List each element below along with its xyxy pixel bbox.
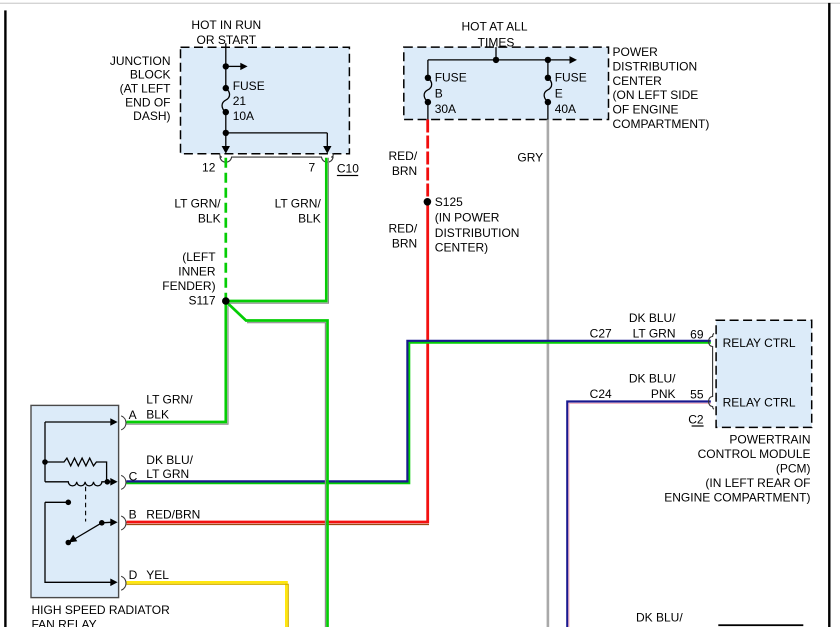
label C27 (590, 327, 612, 341)
arrow relay pin B (102, 519, 118, 527)
svg-text:FUSE: FUSE (555, 70, 587, 84)
connector cup relay pin A (121, 416, 126, 430)
label DK BLU/LT GRN (629, 311, 676, 340)
connector cup relay pin B (121, 516, 126, 530)
wire RED/BRN dashed from fuse B (426, 120, 429, 199)
svg-text:CONTROL MODULE: CONTROL MODULE (698, 447, 811, 461)
svg-text:D: D (129, 568, 138, 582)
wire fuse B lower lead (427, 102, 429, 119)
label FUSE 21 10A (233, 79, 265, 123)
node switch arm pivot dot (99, 520, 105, 526)
label RED/BRN upper (389, 149, 418, 178)
svg-text:(AT LEFT: (AT LEFT (120, 82, 172, 96)
wire fuse output horizontal (226, 132, 327, 134)
wire fuse B drop (427, 60, 429, 78)
arrow to terminal 7 (323, 133, 331, 154)
label POWER DISTRIBUTION CENTER (613, 45, 710, 131)
svg-text:DK BLU/: DK BLU/ (629, 311, 676, 325)
svg-text:DK BLU/: DK BLU/ (146, 453, 193, 467)
svg-text:OR START: OR START (197, 33, 257, 47)
svg-text:INNER: INNER (178, 265, 216, 279)
svg-text:E: E (555, 86, 563, 100)
svg-text:POWERTRAIN: POWERTRAIN (729, 432, 810, 446)
wire relay coil left rail (44, 422, 46, 482)
label FUSE E 40A (555, 70, 587, 115)
node coil output dot (105, 479, 111, 485)
svg-text:30A: 30A (435, 102, 456, 116)
svg-text:HOT AT ALL: HOT AT ALL (461, 20, 527, 34)
wire gray tracer diagonal branch (247, 323, 325, 627)
wire junction block feed vertical (225, 47, 227, 133)
svg-text:FAN RELAY: FAN RELAY (32, 618, 97, 627)
wire relay lower rail to pin D (45, 502, 111, 582)
label connector C10 (337, 161, 359, 176)
svg-text:FUSE: FUSE (233, 79, 265, 93)
svg-text:BLK: BLK (146, 408, 169, 422)
wire relay pin A internal (45, 421, 111, 423)
svg-text:C: C (129, 470, 138, 484)
svg-text:LT GRN/: LT GRN/ (146, 393, 193, 407)
wire PDC feed vertical (495, 47, 497, 60)
svg-text:C10: C10 (337, 161, 359, 175)
wire PDC bus horizontal (428, 59, 570, 61)
junction block box (181, 47, 350, 154)
wire YEL from relay pin D (127, 582, 287, 627)
fuse E bottom dot (545, 99, 551, 105)
svg-text:BLOCK: BLOCK (130, 68, 171, 82)
label HOT IN RUN OR START (191, 18, 261, 47)
svg-text:OF ENGINE: OF ENGINE (613, 103, 679, 117)
svg-text:B: B (435, 86, 443, 100)
label (LEFT INNER FENDER) S117 (162, 250, 216, 308)
label pin B and RED/BRN (129, 507, 201, 521)
label RELAY CTRL pin 69 (723, 336, 796, 350)
svg-text:RELAY CTRL: RELAY CTRL (723, 395, 796, 409)
label DK BLU/PNK (629, 372, 676, 401)
wire RED/BRN solid vertical to relay level (127, 202, 428, 522)
label FUSE B 30A (435, 70, 467, 115)
svg-text:LT GRN/: LT GRN/ (275, 196, 322, 210)
arrow PDC bus continuation (570, 56, 578, 64)
wire GRY vertical (547, 120, 550, 627)
component box edge bottom right (718, 624, 803, 626)
node switch fixed contact dot (66, 500, 72, 506)
svg-text:LT GRN: LT GRN (633, 327, 676, 341)
node fuse output dot (223, 130, 229, 136)
svg-text:FUSE: FUSE (435, 70, 467, 84)
fuse B element (424, 78, 432, 102)
svg-text:BLK: BLK (298, 212, 321, 226)
label DK BLU/ bottom (636, 611, 683, 625)
fuse F21 bottom dot (223, 109, 229, 115)
svg-text:(IN POWER: (IN POWER (435, 210, 500, 224)
node resistor left dot (42, 459, 48, 465)
label RELAY CTRL pin 55 (723, 395, 796, 409)
border frame top rule (0, 3, 840, 4)
wire pink tracer of DK BLU/PNK (569, 403, 711, 627)
svg-text:21: 21 (233, 94, 247, 108)
svg-text:69: 69 (690, 328, 704, 342)
svg-text:C27: C27 (590, 327, 612, 341)
wire fuse E drop (547, 60, 549, 78)
svg-text:S117: S117 (188, 293, 215, 307)
fuse B top dot (425, 75, 431, 81)
wire stub above junction block (225, 43, 227, 47)
svg-text:POWER: POWER (613, 45, 659, 59)
wire dark tracer of YEL (127, 584, 289, 627)
svg-text:55: 55 (690, 388, 704, 402)
arrow bus continuation right (226, 63, 248, 70)
wire lt green tracer of DK BLU/LT GRN (127, 343, 711, 484)
connector C10 line with terminal cups (220, 153, 334, 162)
fuse E top dot (545, 75, 551, 81)
svg-text:BRN: BRN (392, 236, 417, 250)
svg-text:COMPARTMENT): COMPARTMENT) (613, 117, 710, 131)
label GRY (517, 150, 543, 164)
fuse E element (544, 78, 552, 102)
label terminal 7 (309, 160, 316, 174)
svg-text:RED/: RED/ (389, 149, 418, 163)
svg-text:(ON LEFT SIDE: (ON LEFT SIDE (613, 88, 699, 102)
svg-text:PNK: PNK (651, 387, 676, 401)
switch SW1 movable arm (68, 523, 101, 543)
wire brown tracer under RED/BRN horizontal (127, 524, 430, 526)
svg-text:LT GRN: LT GRN (146, 467, 189, 481)
svg-text:HIGH SPEED RADIATOR: HIGH SPEED RADIATOR (32, 603, 171, 617)
PCM box (716, 320, 812, 427)
svg-text:CENTER): CENTER) (435, 240, 488, 254)
svg-text:YEL: YEL (146, 568, 169, 582)
wire DK BLU/LT GRN navy run relay pin C to PCM pin 69 (127, 341, 711, 482)
node PDC feed dot (493, 57, 499, 63)
mechanical link dashed (85, 487, 87, 522)
wire LT GRN/BLK S117 down to relay pin A (127, 303, 226, 422)
svg-text:C2: C2 (688, 413, 704, 427)
svg-text:DISTRIBUTION: DISTRIBUTION (435, 226, 520, 240)
svg-text:LT GRN/: LT GRN/ (174, 196, 221, 210)
node fuse E tap dot (545, 57, 551, 63)
splice S125 dot (424, 198, 432, 206)
border frame left bar (4, 10, 6, 627)
svg-text:BLK: BLK (198, 212, 221, 226)
svg-text:C24: C24 (590, 387, 612, 401)
svg-text:40A: 40A (555, 102, 576, 116)
svg-text:(PCM): (PCM) (776, 462, 811, 476)
svg-text:GRY: GRY (517, 150, 543, 164)
connector cup relay pin C (121, 475, 126, 489)
connector cup relay pin D (121, 576, 126, 590)
svg-text:END OF: END OF (125, 95, 170, 109)
svg-text:12: 12 (202, 160, 216, 174)
label LT GRN/BLK right (275, 196, 322, 225)
label HIGH SPEED RADIATOR FAN RELAY (32, 603, 171, 627)
svg-text:JUNCTION: JUNCTION (110, 54, 171, 68)
label pin A and LT GRN/BLK (129, 393, 194, 423)
inductor L1 relay coil (45, 482, 105, 486)
relay K1 high speed radiator fan relay box (31, 405, 119, 597)
svg-text:S125: S125 (435, 195, 463, 209)
svg-text:RED/: RED/ (389, 221, 418, 235)
svg-text:BRN: BRN (392, 164, 417, 178)
fuse F21 element (222, 88, 230, 112)
label connector C2 (688, 413, 704, 427)
wire fuse E lower lead (547, 102, 549, 119)
power distribution center box (404, 47, 609, 119)
label C24 (590, 387, 612, 401)
connector C2 line with pin cups (709, 333, 714, 409)
fuse F21 top dot (223, 85, 229, 91)
label JUNCTION BLOCK (AT LEFT END OF DASH) (110, 54, 171, 123)
svg-text:10A: 10A (233, 109, 254, 123)
svg-text:DK BLU/: DK BLU/ (629, 372, 676, 386)
label terminal 12 (202, 160, 216, 174)
svg-text:HOT IN RUN: HOT IN RUN (191, 18, 261, 32)
svg-text:ENGINE COMPARTMENT): ENGINE COMPARTMENT) (664, 491, 810, 505)
svg-text:DISTRIBUTION: DISTRIBUTION (613, 59, 698, 73)
svg-text:FENDER): FENDER) (162, 279, 215, 293)
svg-text:DK BLU/: DK BLU/ (636, 611, 683, 625)
wire LT GRN/BLK dashed from terminal 12 (224, 158, 227, 298)
node bus tap dot (223, 63, 229, 69)
svg-text:DASH): DASH) (133, 109, 170, 123)
label RED/BRN lower (389, 221, 418, 250)
svg-text:RED/BRN: RED/BRN (146, 507, 200, 521)
label POWERTRAIN CONTROL MODULE (PCM) caption (664, 432, 810, 504)
label pin D and YEL (129, 568, 170, 582)
svg-text:CENTER: CENTER (613, 74, 663, 88)
wire gray tracer S117 down branch (127, 306, 229, 425)
label pin 69 (690, 328, 704, 342)
wire LT GRN/BLK S117 diagonal branch going down page (228, 303, 328, 627)
wire LT GRN/BLK solid from terminal 7 (228, 158, 326, 301)
label S125 (IN POWER DISTRIBUTION CENTER) (435, 195, 520, 254)
arrow relay pin C (107, 478, 117, 486)
arrow to terminal 12 (222, 133, 230, 154)
svg-text:B: B (129, 507, 137, 521)
resistor R1 zigzag (45, 458, 107, 481)
splice S117 dot (222, 297, 230, 305)
arrow relay pin D (110, 579, 117, 587)
wire DK BLU/PNK navy run PCM pin 55 down page (567, 402, 711, 627)
fuse B bottom dot (425, 99, 431, 105)
label pin C and DK BLU/LT GRN (129, 453, 194, 484)
label pin 55 (690, 388, 704, 402)
arrow relay pin A (110, 418, 117, 426)
svg-text:7: 7 (309, 160, 316, 174)
svg-text:(LEFT: (LEFT (182, 250, 216, 264)
label LT GRN/BLK left (174, 196, 221, 225)
svg-text:RELAY CTRL: RELAY CTRL (723, 336, 796, 350)
wire gray tracer terminal 7 branch (228, 158, 328, 303)
node switch throw dot (66, 540, 72, 546)
svg-text:(IN LEFT REAR OF: (IN LEFT REAR OF (705, 476, 810, 490)
wire switch common contact (45, 501, 66, 503)
label HOT AT ALL TIMES (461, 20, 527, 50)
border frame right bar (828, 3, 830, 627)
svg-text:A: A (129, 408, 137, 422)
